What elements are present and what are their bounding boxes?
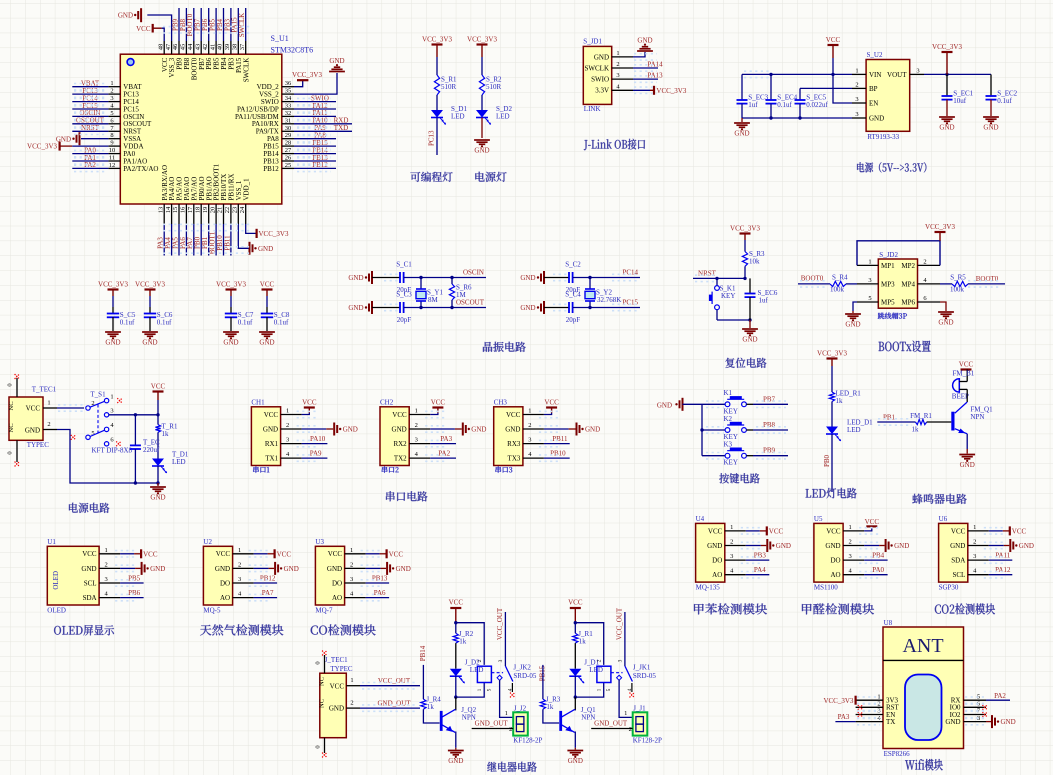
svg-text:40: 40 [217,44,224,51]
svg-text:GND: GND [215,565,230,573]
svg-text:GND: GND [520,274,535,282]
svg-text:U3: U3 [315,538,324,546]
svg-text:2: 2 [855,81,858,88]
svg-text:13: 13 [157,207,164,214]
svg-text:41: 41 [209,44,216,51]
svg-text:VCC: VCC [328,550,343,558]
svg-text:2: 2 [629,726,632,733]
svg-text:3: 3 [730,553,733,560]
svg-text:VCC: VCC [1012,528,1027,536]
svg-text:LED: LED [172,458,186,466]
svg-text:510R: 510R [441,83,457,91]
svg-text:VCC: VCC [826,527,841,535]
svg-text:2: 2 [528,422,531,429]
svg-text:10k: 10k [749,258,760,266]
svg-text:RT9193-33: RT9193-33 [867,133,899,141]
svg-text:1: 1 [286,408,289,415]
svg-text:PA12: PA12 [995,566,1011,574]
svg-text:PB9: PB9 [763,447,776,455]
svg-text:10: 10 [109,147,116,154]
svg-text:5: 5 [868,295,871,302]
svg-text:5: 5 [110,110,113,117]
svg-text:S_R4: S_R4 [832,274,848,282]
svg-text:CH2: CH2 [380,398,394,406]
svg-text:LED: LED [451,113,465,121]
svg-text:1: 1 [415,408,418,415]
svg-text:22: 22 [224,207,231,214]
svg-text:S_C4: S_C4 [565,291,581,299]
svg-text:S_JD1: S_JD1 [583,38,602,46]
svg-text:20: 20 [209,207,216,214]
svg-text:S_R5: S_R5 [950,274,966,282]
svg-text:MQ-135: MQ-135 [696,584,721,592]
svg-text:MQ-5: MQ-5 [203,607,221,615]
svg-text:29: 29 [285,132,292,139]
svg-text:GND: GND [396,565,411,573]
svg-text:OSCOUT: OSCOUT [456,299,485,307]
svg-text:J_J2: J_J2 [514,705,527,713]
svg-text:3: 3 [110,95,113,102]
svg-text:1k: 1k [162,430,170,438]
svg-text:VCC_3V3: VCC_3V3 [925,223,955,231]
svg-text:36: 36 [285,80,292,87]
svg-text:DO: DO [830,557,840,565]
svg-text:9: 9 [110,140,113,147]
svg-text:PA2: PA2 [438,450,450,458]
svg-text:TYPEC: TYPEC [27,441,50,449]
svg-text:1: 1 [528,408,531,415]
svg-text:3: 3 [973,553,976,560]
svg-text:STM32C8T6: STM32C8T6 [271,46,314,55]
svg-text:VCC_OUT: VCC_OUT [378,677,411,685]
svg-text:33: 33 [285,103,292,110]
svg-text:1: 1 [350,547,353,554]
svg-text:PA2/TX/AO: PA2/TX/AO [123,165,158,173]
svg-text:PA6: PA6 [374,589,386,597]
svg-text:AO: AO [220,594,230,602]
svg-text:J_JK2: J_JK2 [513,664,531,672]
svg-text:GND: GND [284,565,299,573]
svg-text:1k: 1k [912,426,920,434]
svg-text:VCC: VCC [769,528,784,536]
svg-text:S_C2: S_C2 [565,261,581,269]
svg-text:GND: GND [707,542,722,550]
svg-text:2: 2 [730,539,733,546]
svg-text:TX3: TX3 [508,455,521,463]
svg-text:BEEP: BEEP [952,393,969,401]
svg-text:S_U2: S_U2 [867,51,883,59]
svg-text:3: 3 [855,111,858,118]
svg-text:VCC: VCC [216,550,231,558]
svg-text:0.1uf: 0.1uf [997,97,1012,105]
svg-text:GND: GND [258,245,273,253]
svg-text:1: 1 [973,524,976,531]
svg-text:1: 1 [505,710,508,717]
svg-text:PA4: PA4 [754,566,766,574]
svg-text:3: 3 [848,553,851,560]
svg-text:VCC_3V3: VCC_3V3 [292,71,322,79]
svg-text:SWIO: SWIO [591,76,609,84]
svg-text:GND: GND [150,565,165,573]
svg-text:38: 38 [232,44,239,51]
svg-text:2: 2 [973,539,976,546]
svg-text:PA11: PA11 [995,552,1011,560]
svg-text:1: 1 [848,524,851,531]
svg-text:PB10: PB10 [550,450,566,458]
svg-text:3: 3 [855,96,858,103]
svg-text:3: 3 [350,576,353,583]
svg-text:20pF: 20pF [566,316,581,324]
svg-text:8: 8 [110,132,113,139]
svg-text:KEY: KEY [724,459,738,467]
svg-text:VCC: VCC [826,36,841,44]
svg-text:VCC_OUT: VCC_OUT [496,607,504,640]
svg-text:5: 5 [606,688,612,691]
svg-text:0: 0 [315,745,322,748]
svg-text:VIN: VIN [869,71,881,79]
svg-text:11: 11 [109,155,115,162]
svg-text:VCC_3V3: VCC_3V3 [98,281,128,289]
svg-text:1uf: 1uf [748,101,758,109]
svg-text:MP6: MP6 [901,298,915,306]
svg-text:GND: GND [56,135,71,143]
svg-text:AO: AO [712,571,722,579]
svg-text:PA14: PA14 [647,61,663,69]
svg-text:MP3: MP3 [881,280,895,288]
svg-text:GND: GND [568,757,583,765]
svg-text:46: 46 [172,43,179,50]
svg-text:1: 1 [730,524,733,531]
svg-text:GND: GND [150,494,165,502]
svg-text:3: 3 [916,67,919,74]
svg-text:SWCLK: SWCLK [585,64,610,72]
svg-text:J_J1: J_J1 [633,705,646,713]
svg-text:100k: 100k [950,286,965,294]
svg-text:15: 15 [172,207,179,214]
svg-text:VCC: VCC [431,399,446,407]
svg-text:NC: NC [8,401,15,410]
svg-text:31: 31 [285,117,292,124]
svg-text:VCC: VCC [302,399,317,407]
svg-text:PC14: PC14 [622,269,638,277]
svg-text:PB11: PB11 [552,435,568,443]
svg-text:GND_OUT: GND_OUT [594,720,628,728]
svg-text:1: 1 [624,710,627,717]
svg-text:8M: 8M [428,296,439,304]
svg-text:3: 3 [238,576,241,583]
svg-text:SCL: SCL [84,579,97,587]
svg-text:TXD: TXD [334,124,348,132]
svg-text:GND: GND [945,718,960,726]
svg-text:LINK: LINK [584,105,601,113]
svg-text:NC: NC [8,423,15,432]
svg-text:AO: AO [332,594,342,602]
svg-text:10uf: 10uf [953,97,967,105]
svg-text:VCC: VCC [82,550,97,558]
svg-text:DO: DO [332,579,342,587]
svg-text:GND: GND [81,565,96,573]
svg-text:GND: GND [657,402,672,410]
svg-text:PB12: PB12 [263,165,279,173]
svg-text:1k: 1k [579,638,587,646]
svg-text:VDD_1: VDD_1 [242,178,250,201]
svg-text:FM_B1: FM_B1 [953,370,975,378]
svg-text:1: 1 [238,547,241,554]
svg-text:PA9: PA9 [310,450,322,458]
svg-text:GND: GND [392,425,407,433]
svg-text:ANT: ANT [902,635,943,657]
svg-text:3: 3 [877,708,880,715]
svg-text:S_C3: S_C3 [396,291,412,299]
svg-text:47: 47 [165,43,172,50]
svg-text:GND: GND [594,53,609,61]
svg-text:2: 2 [238,561,241,568]
svg-text:KEY: KEY [721,292,735,300]
svg-text:SWCLK: SWCLK [242,58,250,82]
svg-text:GND: GND [25,427,40,435]
svg-text:34: 34 [285,95,292,102]
svg-text:VCC: VCC [708,527,723,535]
svg-text:2: 2 [597,659,603,662]
svg-text:GND_OUT: GND_OUT [475,720,509,728]
svg-text:2: 2 [286,422,289,429]
svg-text:3: 3 [498,659,504,662]
svg-text:2: 2 [923,258,926,265]
svg-text:3: 3 [617,659,623,662]
svg-text:220uf: 220uf [143,446,160,454]
svg-text:0: 0 [7,451,14,454]
svg-text:K1: K1 [724,389,733,397]
svg-text:PB3: PB3 [754,552,767,560]
svg-text:GND: GND [327,565,342,573]
svg-text:18: 18 [194,207,201,214]
svg-text:28: 28 [285,140,292,147]
svg-text:GND: GND [142,339,157,347]
svg-text:FM_R1: FM_R1 [910,412,932,420]
svg-text:MS1100: MS1100 [814,584,838,592]
svg-text:RX1: RX1 [265,440,279,448]
svg-text:MP2: MP2 [901,262,915,270]
svg-text:T_TEC1: T_TEC1 [32,386,57,394]
svg-text:0.022uf: 0.022uf [806,101,828,109]
svg-text:SDA: SDA [951,557,965,565]
svg-text:2: 2 [47,421,50,428]
svg-text:16: 16 [180,206,187,213]
svg-text:VCC: VCC [389,550,404,558]
svg-text:1: 1 [104,547,107,554]
svg-text:1: 1 [616,50,619,57]
svg-text:GND: GND [343,426,358,434]
svg-text:1: 1 [855,67,858,74]
svg-text:AO: AO [830,571,840,579]
svg-text:GND: GND [734,130,749,138]
svg-text:LED: LED [589,666,603,674]
svg-text:1: 1 [350,677,353,684]
svg-text:MP4: MP4 [901,280,915,288]
svg-text:TYPEC: TYPEC [330,665,353,673]
svg-text:RX3: RX3 [507,440,521,448]
svg-text:GND: GND [585,426,600,434]
svg-text:DO: DO [220,579,230,587]
svg-text:2: 2 [104,561,107,568]
svg-text:0: 0 [315,661,322,664]
svg-text:VCC_3V3: VCC_3V3 [259,230,289,238]
svg-text:GND: GND [960,461,975,469]
svg-text:2: 2 [877,701,880,708]
svg-text:25: 25 [285,162,292,169]
svg-text:1: 1 [110,80,113,87]
svg-text:NRST: NRST [698,270,717,278]
svg-text:MP1: MP1 [881,262,895,270]
svg-text:27: 27 [285,147,292,154]
svg-text:100k: 100k [830,286,845,294]
svg-text:LED: LED [496,113,510,121]
svg-text:VCC_OUT: VCC_OUT [615,607,623,640]
svg-text:PB5: PB5 [128,575,141,583]
svg-text:GND: GND [983,124,998,132]
svg-text:OSCIN: OSCIN [463,269,484,277]
svg-text:PB14: PB14 [419,645,427,661]
svg-text:GND: GND [505,425,520,433]
svg-text:20pF: 20pF [397,316,412,324]
svg-text:PA3: PA3 [440,435,452,443]
svg-text:VCC: VCC [151,383,166,391]
svg-text:VCC: VCC [506,411,521,419]
svg-text:CH1: CH1 [251,398,265,406]
svg-text:VCC: VCC [143,550,158,558]
svg-text:VCC: VCC [392,411,407,419]
svg-text:VCC: VCC [951,527,966,535]
svg-text:SGP30: SGP30 [939,584,959,592]
svg-text:1k: 1k [546,703,554,711]
svg-text:GND: GND [742,336,757,344]
svg-text:32: 32 [285,110,292,117]
svg-text:S_C1: S_C1 [396,261,412,269]
svg-text:VCC: VCC [260,281,275,289]
svg-text:GND: GND [471,426,486,434]
svg-text:35: 35 [285,88,292,95]
svg-text:3: 3 [110,408,113,415]
svg-text:NC: NC [319,677,326,686]
svg-text:0.1uf: 0.1uf [777,101,792,109]
svg-text:GND: GND [1001,718,1016,726]
svg-text:PA2: PA2 [994,692,1006,700]
svg-text:1: 1 [110,394,113,401]
svg-text:SRD-05: SRD-05 [513,672,536,680]
svg-text:PB4: PB4 [872,552,885,560]
svg-text:K2: K2 [724,415,733,423]
svg-text:PB7: PB7 [763,395,776,403]
svg-text:24: 24 [239,206,246,213]
svg-text:2: 2 [848,539,851,546]
svg-text:2: 2 [616,61,619,68]
svg-text:3: 3 [286,437,289,444]
svg-text:PB6: PB6 [128,589,141,597]
svg-text:510R: 510R [486,83,502,91]
svg-text:GND: GND [448,757,463,765]
svg-text:19: 19 [202,207,209,214]
svg-text:GND: GND [520,304,535,312]
svg-text:21: 21 [217,207,224,214]
svg-text:PC15: PC15 [622,299,638,307]
svg-text:0: 0 [7,383,14,386]
svg-text:VOUT: VOUT [887,71,907,79]
svg-text:3: 3 [415,437,418,444]
svg-text:GND: GND [348,304,363,312]
svg-text:VCC_3V3: VCC_3V3 [817,350,847,358]
svg-text:1k: 1k [459,638,467,646]
svg-text:44: 44 [187,43,194,50]
svg-text:37: 37 [239,43,246,50]
svg-text:VCC: VCC [136,25,151,33]
svg-text:K3: K3 [724,441,733,449]
svg-text:GND: GND [105,339,120,347]
svg-text:30: 30 [285,125,292,132]
svg-text:VCC_3V3: VCC_3V3 [730,225,760,233]
svg-text:NC: NC [319,699,326,708]
svg-text:PB0: PB0 [823,454,831,467]
svg-text:ESP8266: ESP8266 [884,750,911,758]
svg-text:PA10: PA10 [310,435,326,443]
svg-text:PA3: PA3 [838,713,850,721]
svg-text:PB1: PB1 [883,414,896,422]
svg-text:GND: GND [939,124,954,132]
svg-text:VCC: VCC [865,518,880,526]
svg-text:2: 2 [415,422,418,429]
svg-text:0.1uf: 0.1uf [274,318,289,326]
svg-text:GND: GND [950,542,965,550]
svg-text:BP: BP [869,85,878,93]
svg-text:GND: GND [348,274,363,282]
svg-text:VCC: VCC [264,411,279,419]
svg-text:SCL: SCL [952,571,965,579]
svg-text:BOOT0: BOOT0 [976,275,999,283]
svg-text:3: 3 [616,72,619,79]
svg-text:42: 42 [202,44,209,51]
svg-text:GND: GND [894,542,909,550]
svg-text:1: 1 [597,688,603,691]
svg-text:GND_OUT: GND_OUT [377,700,411,708]
svg-text:GND: GND [259,339,274,347]
svg-text:1: 1 [477,688,483,691]
svg-text:1k: 1k [836,397,844,405]
svg-text:LED: LED [470,666,484,674]
svg-text:GND: GND [776,542,791,550]
svg-text:MP5: MP5 [881,298,895,306]
svg-text:3: 3 [868,277,871,284]
svg-text:T_S1: T_S1 [90,391,106,399]
svg-text:S_U1: S_U1 [271,34,289,43]
svg-text:U4: U4 [696,515,705,523]
svg-text:CH3: CH3 [494,398,508,406]
svg-text:KF128-2P: KF128-2P [513,737,542,745]
svg-text:2: 2 [350,561,353,568]
svg-text:U1: U1 [47,538,56,546]
svg-text:SRD-05: SRD-05 [633,672,656,680]
svg-text:MQ-7: MQ-7 [315,607,333,615]
svg-text:2: 2 [477,659,483,662]
svg-text:GND: GND [329,705,344,713]
svg-text:1uf: 1uf [759,297,769,305]
svg-text:SDA: SDA [83,594,97,602]
svg-text:GND: GND [223,339,238,347]
svg-text:23: 23 [232,207,239,214]
svg-text:GND: GND [329,57,344,65]
svg-text:0.1uf: 0.1uf [157,318,172,326]
svg-text:GND: GND [474,147,489,155]
svg-text:12: 12 [109,162,116,169]
svg-text:PC13: PC13 [428,130,436,146]
